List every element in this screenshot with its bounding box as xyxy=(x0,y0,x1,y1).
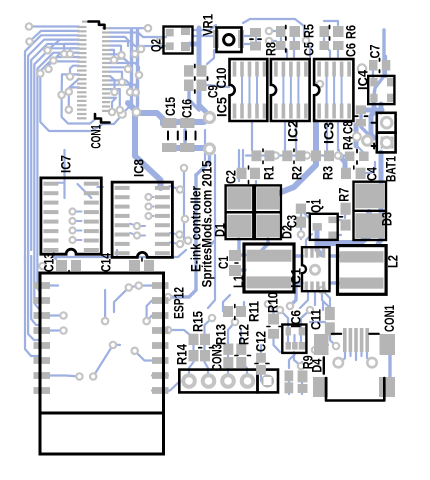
svg-text:CON1: CON1 xyxy=(381,305,397,332)
wire xyxy=(63,150,65,198)
wire xyxy=(317,227,322,255)
resistor R11 xyxy=(223,305,246,320)
via xyxy=(157,38,163,44)
via xyxy=(266,38,272,44)
capacitor C7 xyxy=(369,59,390,73)
wire xyxy=(25,256,40,356)
wire xyxy=(293,38,295,57)
via xyxy=(50,57,56,63)
diode D4 xyxy=(298,357,324,393)
wire xyxy=(246,154,251,156)
via xyxy=(232,319,238,325)
wire xyxy=(292,154,296,156)
wire xyxy=(385,56,387,62)
via xyxy=(335,152,341,158)
wire xyxy=(130,224,137,226)
wire xyxy=(243,302,245,311)
wire xyxy=(122,104,132,114)
wire xyxy=(50,329,64,331)
via xyxy=(146,204,152,210)
svg-text:R14: R14 xyxy=(174,344,190,365)
resistor R1 xyxy=(251,149,274,164)
via xyxy=(266,28,272,34)
capacitor C8 xyxy=(355,105,368,126)
resistor R3 xyxy=(311,150,334,161)
svg-text:R15: R15 xyxy=(190,311,206,332)
wire xyxy=(324,21,338,25)
wire xyxy=(206,85,229,87)
svg-text:VR1: VR1 xyxy=(200,14,216,36)
via xyxy=(312,347,318,353)
wire xyxy=(359,110,362,120)
wire xyxy=(205,318,213,334)
via xyxy=(125,66,131,72)
capacitors C15 C16 xyxy=(162,118,196,152)
via xyxy=(58,92,64,98)
svg-text:R2: R2 xyxy=(289,166,305,180)
wire xyxy=(261,154,266,156)
svg-text:L2: L2 xyxy=(385,255,401,268)
svg-text:C2: C2 xyxy=(223,170,239,184)
via xyxy=(70,228,76,234)
svg-text:D4: D4 xyxy=(309,358,325,372)
wire xyxy=(326,122,328,150)
via xyxy=(136,72,142,78)
svg-text:C9: C9 xyxy=(205,85,221,98)
via xyxy=(143,318,149,324)
wire xyxy=(261,374,267,381)
via xyxy=(358,64,366,72)
capacitor C2 xyxy=(237,166,261,184)
wire xyxy=(37,53,79,238)
wire xyxy=(110,46,121,51)
wire xyxy=(170,186,180,190)
wire xyxy=(333,219,341,221)
wire xyxy=(324,38,330,57)
svg-text:IC5: IC5 xyxy=(214,97,230,117)
svg-text:CON3: CON3 xyxy=(209,344,225,371)
via xyxy=(111,57,117,63)
wire xyxy=(110,27,148,29)
wire xyxy=(300,291,308,308)
wire xyxy=(274,339,281,352)
capacitor C11 xyxy=(325,307,335,335)
via xyxy=(109,109,115,115)
wire xyxy=(58,182,64,184)
via xyxy=(134,233,140,239)
wire xyxy=(269,30,276,32)
svg-text:R6: R6 xyxy=(343,25,359,39)
wire xyxy=(330,254,340,257)
wire xyxy=(49,57,80,69)
via xyxy=(133,89,139,95)
wire xyxy=(251,122,253,150)
via xyxy=(277,307,283,313)
wire xyxy=(235,253,245,256)
via xyxy=(319,287,325,293)
wire xyxy=(300,230,302,239)
wire xyxy=(110,63,139,73)
via xyxy=(39,263,45,269)
wire xyxy=(315,345,328,350)
wire xyxy=(152,196,154,198)
svg-text:R12: R12 xyxy=(236,324,252,345)
wire xyxy=(256,75,258,105)
wire xyxy=(223,295,230,311)
via xyxy=(138,46,144,52)
via xyxy=(110,342,116,348)
wire xyxy=(205,362,209,381)
via xyxy=(102,318,108,324)
wire xyxy=(227,355,229,368)
via xyxy=(66,89,72,95)
connector CON3 xyxy=(179,370,278,393)
wire xyxy=(228,322,235,343)
svg-text:C15: C15 xyxy=(162,97,178,116)
wire xyxy=(110,98,116,110)
wire xyxy=(367,137,374,141)
wire xyxy=(104,290,106,321)
ic IC1 xyxy=(302,247,330,291)
wire xyxy=(168,175,196,297)
svg-text:Q2: Q2 xyxy=(148,39,164,52)
wire xyxy=(374,30,384,95)
wire xyxy=(68,92,70,108)
wire xyxy=(152,374,168,376)
wire xyxy=(335,154,339,156)
ic socket IC8 xyxy=(112,182,172,257)
via xyxy=(205,144,215,154)
svg-text:IC1: IC1 xyxy=(288,268,304,288)
via xyxy=(265,301,271,307)
via xyxy=(165,327,171,333)
capacitor C6 xyxy=(320,26,330,51)
wire xyxy=(196,149,210,175)
wire xyxy=(367,352,372,363)
via xyxy=(117,107,123,113)
wire xyxy=(140,225,145,227)
ic socket IC7 xyxy=(41,178,101,254)
wire xyxy=(371,100,374,138)
svg-text:L1: L1 xyxy=(230,275,246,288)
via xyxy=(333,343,339,349)
wire xyxy=(114,288,129,313)
wire xyxy=(130,233,137,236)
resistor R8 xyxy=(250,28,261,51)
transistor Q1 xyxy=(310,214,338,240)
wire xyxy=(300,214,302,230)
svg-text:C3: C3 xyxy=(284,215,300,228)
wire xyxy=(208,240,215,308)
svg-text:D3: D3 xyxy=(379,212,395,226)
wire xyxy=(282,75,284,105)
via xyxy=(205,113,215,123)
wire xyxy=(344,210,346,218)
svg-text:R7: R7 xyxy=(336,188,352,202)
wire xyxy=(152,381,180,391)
wire xyxy=(135,351,152,361)
wire xyxy=(322,302,324,310)
via xyxy=(185,237,191,243)
wire xyxy=(31,44,79,250)
wire xyxy=(341,75,343,105)
wire xyxy=(235,268,245,271)
wire xyxy=(241,362,247,381)
wire xyxy=(168,330,194,338)
wire xyxy=(193,25,216,30)
ic IC5 xyxy=(230,59,268,121)
via xyxy=(70,209,76,215)
wire xyxy=(64,44,79,50)
wire xyxy=(40,61,79,73)
wire xyxy=(361,127,370,140)
diode D2 xyxy=(255,185,281,239)
wire xyxy=(378,152,381,244)
wire xyxy=(237,239,240,250)
svg-text:IC3: IC3 xyxy=(321,122,337,144)
pushbutton/regulator VR1 xyxy=(213,28,244,53)
diode D3 xyxy=(354,182,387,240)
via xyxy=(303,37,309,43)
wire xyxy=(210,155,215,246)
wire xyxy=(48,40,80,51)
via xyxy=(61,51,67,57)
wire xyxy=(54,252,56,259)
wire xyxy=(69,79,79,91)
wire xyxy=(110,53,122,55)
wire xyxy=(28,250,40,340)
via xyxy=(209,315,215,321)
resistor R6 xyxy=(333,26,344,50)
wire xyxy=(62,74,79,94)
wire xyxy=(301,310,310,327)
wire xyxy=(192,345,194,350)
wire xyxy=(116,250,118,257)
wire xyxy=(93,345,113,377)
via xyxy=(45,66,51,72)
wire xyxy=(113,344,120,346)
wire xyxy=(242,150,244,167)
via xyxy=(133,108,141,116)
wire xyxy=(110,41,166,46)
wire xyxy=(40,74,122,131)
svg-text:C12: C12 xyxy=(253,331,269,352)
via xyxy=(317,81,323,87)
via xyxy=(119,79,125,85)
diode D1 xyxy=(226,185,254,239)
wire xyxy=(110,80,130,90)
resistor R12 xyxy=(235,344,251,369)
wire xyxy=(135,30,139,110)
capacitor C12 xyxy=(255,353,269,375)
svg-text:IC6: IC6 xyxy=(288,310,304,328)
svg-text:CON1: CON1 xyxy=(88,124,104,148)
via xyxy=(66,107,72,113)
wire xyxy=(50,314,64,316)
wire xyxy=(301,210,309,218)
wire xyxy=(330,335,336,346)
capacitor C4 xyxy=(341,166,366,179)
wire xyxy=(385,71,387,77)
wire xyxy=(242,35,250,37)
wire xyxy=(97,186,103,188)
wire xyxy=(275,154,282,156)
via xyxy=(304,152,310,158)
wire xyxy=(110,67,128,69)
resistor R7 xyxy=(340,203,351,231)
via xyxy=(336,152,342,158)
wire xyxy=(53,53,79,61)
via xyxy=(26,23,32,29)
wire xyxy=(238,150,240,181)
wire xyxy=(260,345,262,352)
capacitor C14 xyxy=(129,258,154,271)
ic IC2 xyxy=(271,59,310,121)
wire xyxy=(241,75,243,105)
wire xyxy=(268,304,274,319)
wire xyxy=(183,130,186,148)
wire xyxy=(34,48,79,244)
wire xyxy=(170,233,180,235)
via xyxy=(44,47,50,53)
wire xyxy=(333,75,335,105)
wire xyxy=(343,154,345,156)
svg-text:C6: C6 xyxy=(343,43,359,57)
via xyxy=(127,89,133,95)
via xyxy=(176,231,182,237)
wire xyxy=(69,87,79,90)
wire xyxy=(207,50,214,64)
wire xyxy=(337,44,339,57)
capacitor C1 xyxy=(229,250,241,276)
wire xyxy=(289,354,295,368)
svg-text:C8: C8 xyxy=(340,121,356,134)
via xyxy=(298,363,304,369)
via xyxy=(182,216,188,222)
wire xyxy=(301,362,303,368)
wire xyxy=(366,212,372,230)
wire xyxy=(34,244,40,308)
wire xyxy=(25,35,79,262)
via xyxy=(298,231,304,237)
resistor R4 xyxy=(345,150,369,165)
wire xyxy=(339,150,345,156)
wire xyxy=(330,281,340,284)
wire xyxy=(78,184,92,198)
connector CON1 (FFC) xyxy=(77,21,110,123)
via xyxy=(146,213,152,219)
svg-text:R4: R4 xyxy=(340,136,356,150)
via xyxy=(118,110,126,118)
via xyxy=(67,51,73,57)
via xyxy=(353,133,361,141)
via xyxy=(76,373,82,379)
wire xyxy=(300,335,302,342)
ic IC3 xyxy=(314,59,353,121)
module ESP12 xyxy=(34,273,169,454)
via xyxy=(165,294,171,300)
resistor R13 xyxy=(223,344,233,369)
wire xyxy=(110,50,114,58)
via xyxy=(311,265,320,274)
svg-text:R13: R13 xyxy=(213,324,229,345)
wire xyxy=(304,41,310,57)
resistor R10 xyxy=(267,314,282,339)
wire xyxy=(204,130,206,160)
svg-text:C4: C4 xyxy=(364,167,380,181)
svg-text:C7: C7 xyxy=(367,44,383,58)
wire xyxy=(301,381,303,394)
wire xyxy=(249,75,251,105)
wire xyxy=(170,242,180,244)
wire xyxy=(193,35,216,37)
wire xyxy=(184,168,188,244)
wire xyxy=(110,89,120,108)
wire xyxy=(305,154,311,156)
wire xyxy=(110,37,128,46)
wire xyxy=(333,234,341,236)
wire xyxy=(31,256,40,325)
wire xyxy=(293,335,295,342)
capacitors C9 C10 xyxy=(184,65,208,94)
via xyxy=(145,25,151,31)
ic IC6 xyxy=(282,325,306,353)
wire xyxy=(372,71,374,77)
capacitor C5 xyxy=(276,26,286,53)
via xyxy=(70,237,76,243)
wire xyxy=(338,155,345,168)
svg-text:R1: R1 xyxy=(261,166,277,180)
via xyxy=(37,70,43,76)
transistor Q2 xyxy=(164,26,193,54)
via xyxy=(67,73,73,79)
wire xyxy=(279,158,316,193)
wire xyxy=(189,89,199,110)
wire xyxy=(199,89,210,115)
wire xyxy=(130,30,133,104)
svg-text:C14: C14 xyxy=(98,253,114,272)
wire xyxy=(354,125,359,146)
wire xyxy=(197,28,202,66)
wire xyxy=(306,234,312,247)
wire xyxy=(70,48,79,52)
wire xyxy=(269,40,276,42)
inductor L2 xyxy=(338,246,387,295)
svg-text:BAT1: BAT1 xyxy=(383,156,399,182)
wire xyxy=(140,235,145,237)
svg-text:SpritesMods.com 2015: SpritesMods.com 2015 xyxy=(199,160,215,287)
wire xyxy=(50,376,79,377)
svg-text:R3: R3 xyxy=(320,166,336,180)
wire xyxy=(135,113,163,124)
svg-text:R11: R11 xyxy=(246,301,262,322)
wire xyxy=(110,33,166,38)
wire xyxy=(317,240,319,247)
wire xyxy=(294,352,301,366)
wire xyxy=(70,66,79,76)
capacitor C3 xyxy=(296,202,310,228)
wire xyxy=(129,286,152,288)
wire xyxy=(262,239,268,250)
svg-text:IC2: IC2 xyxy=(285,120,301,142)
wire xyxy=(280,310,288,327)
wire xyxy=(349,352,351,356)
wire xyxy=(357,136,363,156)
via xyxy=(90,373,96,379)
wire xyxy=(366,108,382,113)
via xyxy=(177,241,183,247)
svg-text:IC8: IC8 xyxy=(131,159,147,177)
